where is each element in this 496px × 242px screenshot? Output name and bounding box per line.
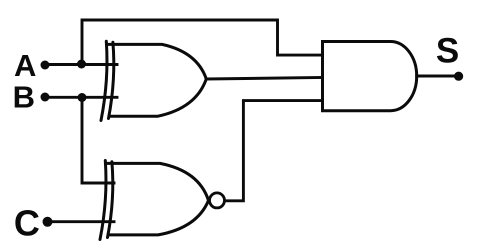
wire C input — [48, 220, 115, 223]
input terminal C — [43, 217, 53, 227]
svg-text:S: S — [436, 31, 459, 70]
output terminal S — [454, 72, 463, 81]
junction on wire A — [77, 60, 86, 69]
wire XNOR output to AND bottom input — [223, 101, 323, 201]
XNOR gate U2 — [100, 161, 225, 240]
wire AND output to S — [417, 75, 459, 78]
wire B-junction to XNOR top input — [82, 98, 114, 184]
wire XOR output to AND middle input — [206, 78, 322, 80]
wire A input — [45, 63, 117, 66]
svg-text:C: C — [14, 203, 40, 242]
wire B input — [45, 96, 117, 99]
svg-text:B: B — [13, 79, 35, 114]
XNOR output bubble — [210, 193, 225, 208]
input terminal B — [41, 93, 50, 102]
junction on wire B — [78, 93, 87, 102]
XOR gate U1 — [101, 41, 206, 120]
wire A-junction to AND top input — [82, 20, 323, 64]
svg-text:A: A — [14, 48, 36, 83]
input terminal A — [41, 61, 50, 70]
AND gate U3 — [323, 42, 417, 111]
